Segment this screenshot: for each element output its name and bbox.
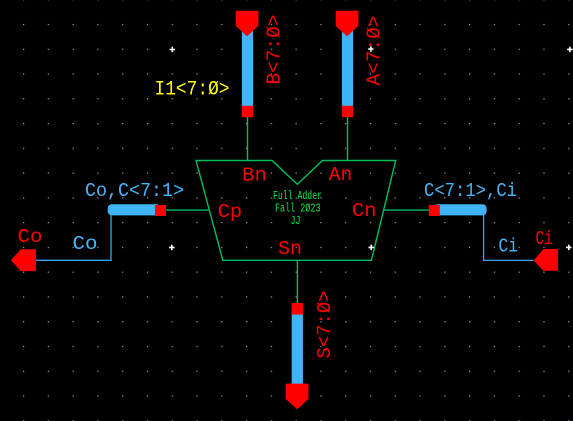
svg-text:S<7:Ø>: S<7:Ø> (314, 291, 336, 359)
marker cross 3 (369, 245, 374, 250)
pin connection square B (242, 106, 253, 117)
pin connection square A (342, 106, 353, 117)
wire net A vertical stub (347, 111, 349, 161)
bus C,Ci right wide wire (434, 204, 487, 215)
marker cross 6 (567, 47, 572, 52)
wire net Cp horizontal stub (161, 209, 210, 211)
pin pentagon Co output left (11, 249, 36, 271)
wire net B vertical stub (247, 111, 249, 161)
svg-text:C<7:1>,Ci: C<7:1>,Ci (424, 180, 517, 202)
wire Co thin blue (36, 214, 111, 261)
pin connection square right (429, 205, 440, 216)
svg-text:Ci: Ci (536, 228, 554, 250)
full adder symbol U1 trapezoid body (196, 161, 396, 261)
svg-text:I1<7:Ø>: I1<7:Ø> (155, 79, 230, 102)
wire Ci thin blue (484, 214, 534, 261)
bus A wide wire (342, 24, 353, 112)
svg-text:Co,C<7:1>: Co,C<7:1> (85, 180, 184, 202)
svg-text:Cn: Cn (352, 200, 377, 222)
svg-text:Co: Co (18, 226, 43, 248)
svg-text:Ci: Ci (499, 236, 519, 258)
pin pentagon Ci input right (534, 249, 558, 271)
marker cross 5 (169, 245, 174, 250)
wire net S vertical stub (296, 260, 298, 309)
bus S wide wire (292, 308, 303, 386)
svg-text:B<7:Ø>: B<7:Ø> (264, 15, 286, 85)
wire net Cn horizontal stub (383, 209, 434, 211)
pin connection square left (155, 205, 166, 216)
svg-text:JJ: JJ (291, 214, 301, 228)
bus B wide wire (242, 24, 253, 112)
svg-text:An: An (329, 164, 353, 186)
pin pentagon B<7:0> input top (236, 11, 259, 37)
svg-text:Co: Co (73, 233, 98, 255)
marker cross 1 (170, 47, 175, 52)
svg-text:A<7:Ø>: A<7:Ø> (364, 16, 386, 86)
svg-text:Sn: Sn (278, 238, 302, 260)
marker cross 4 (566, 245, 571, 250)
pin connection square S (292, 303, 304, 315)
pin pentagon S<7:0> output bottom (286, 384, 309, 410)
bus Co,C left wide wire (108, 204, 161, 215)
pin pentagon A<7:0> input top (336, 11, 359, 37)
svg-text:Bn: Bn (242, 164, 267, 186)
svg-text:Cp: Cp (218, 201, 243, 223)
marker cross 2 (368, 46, 373, 51)
